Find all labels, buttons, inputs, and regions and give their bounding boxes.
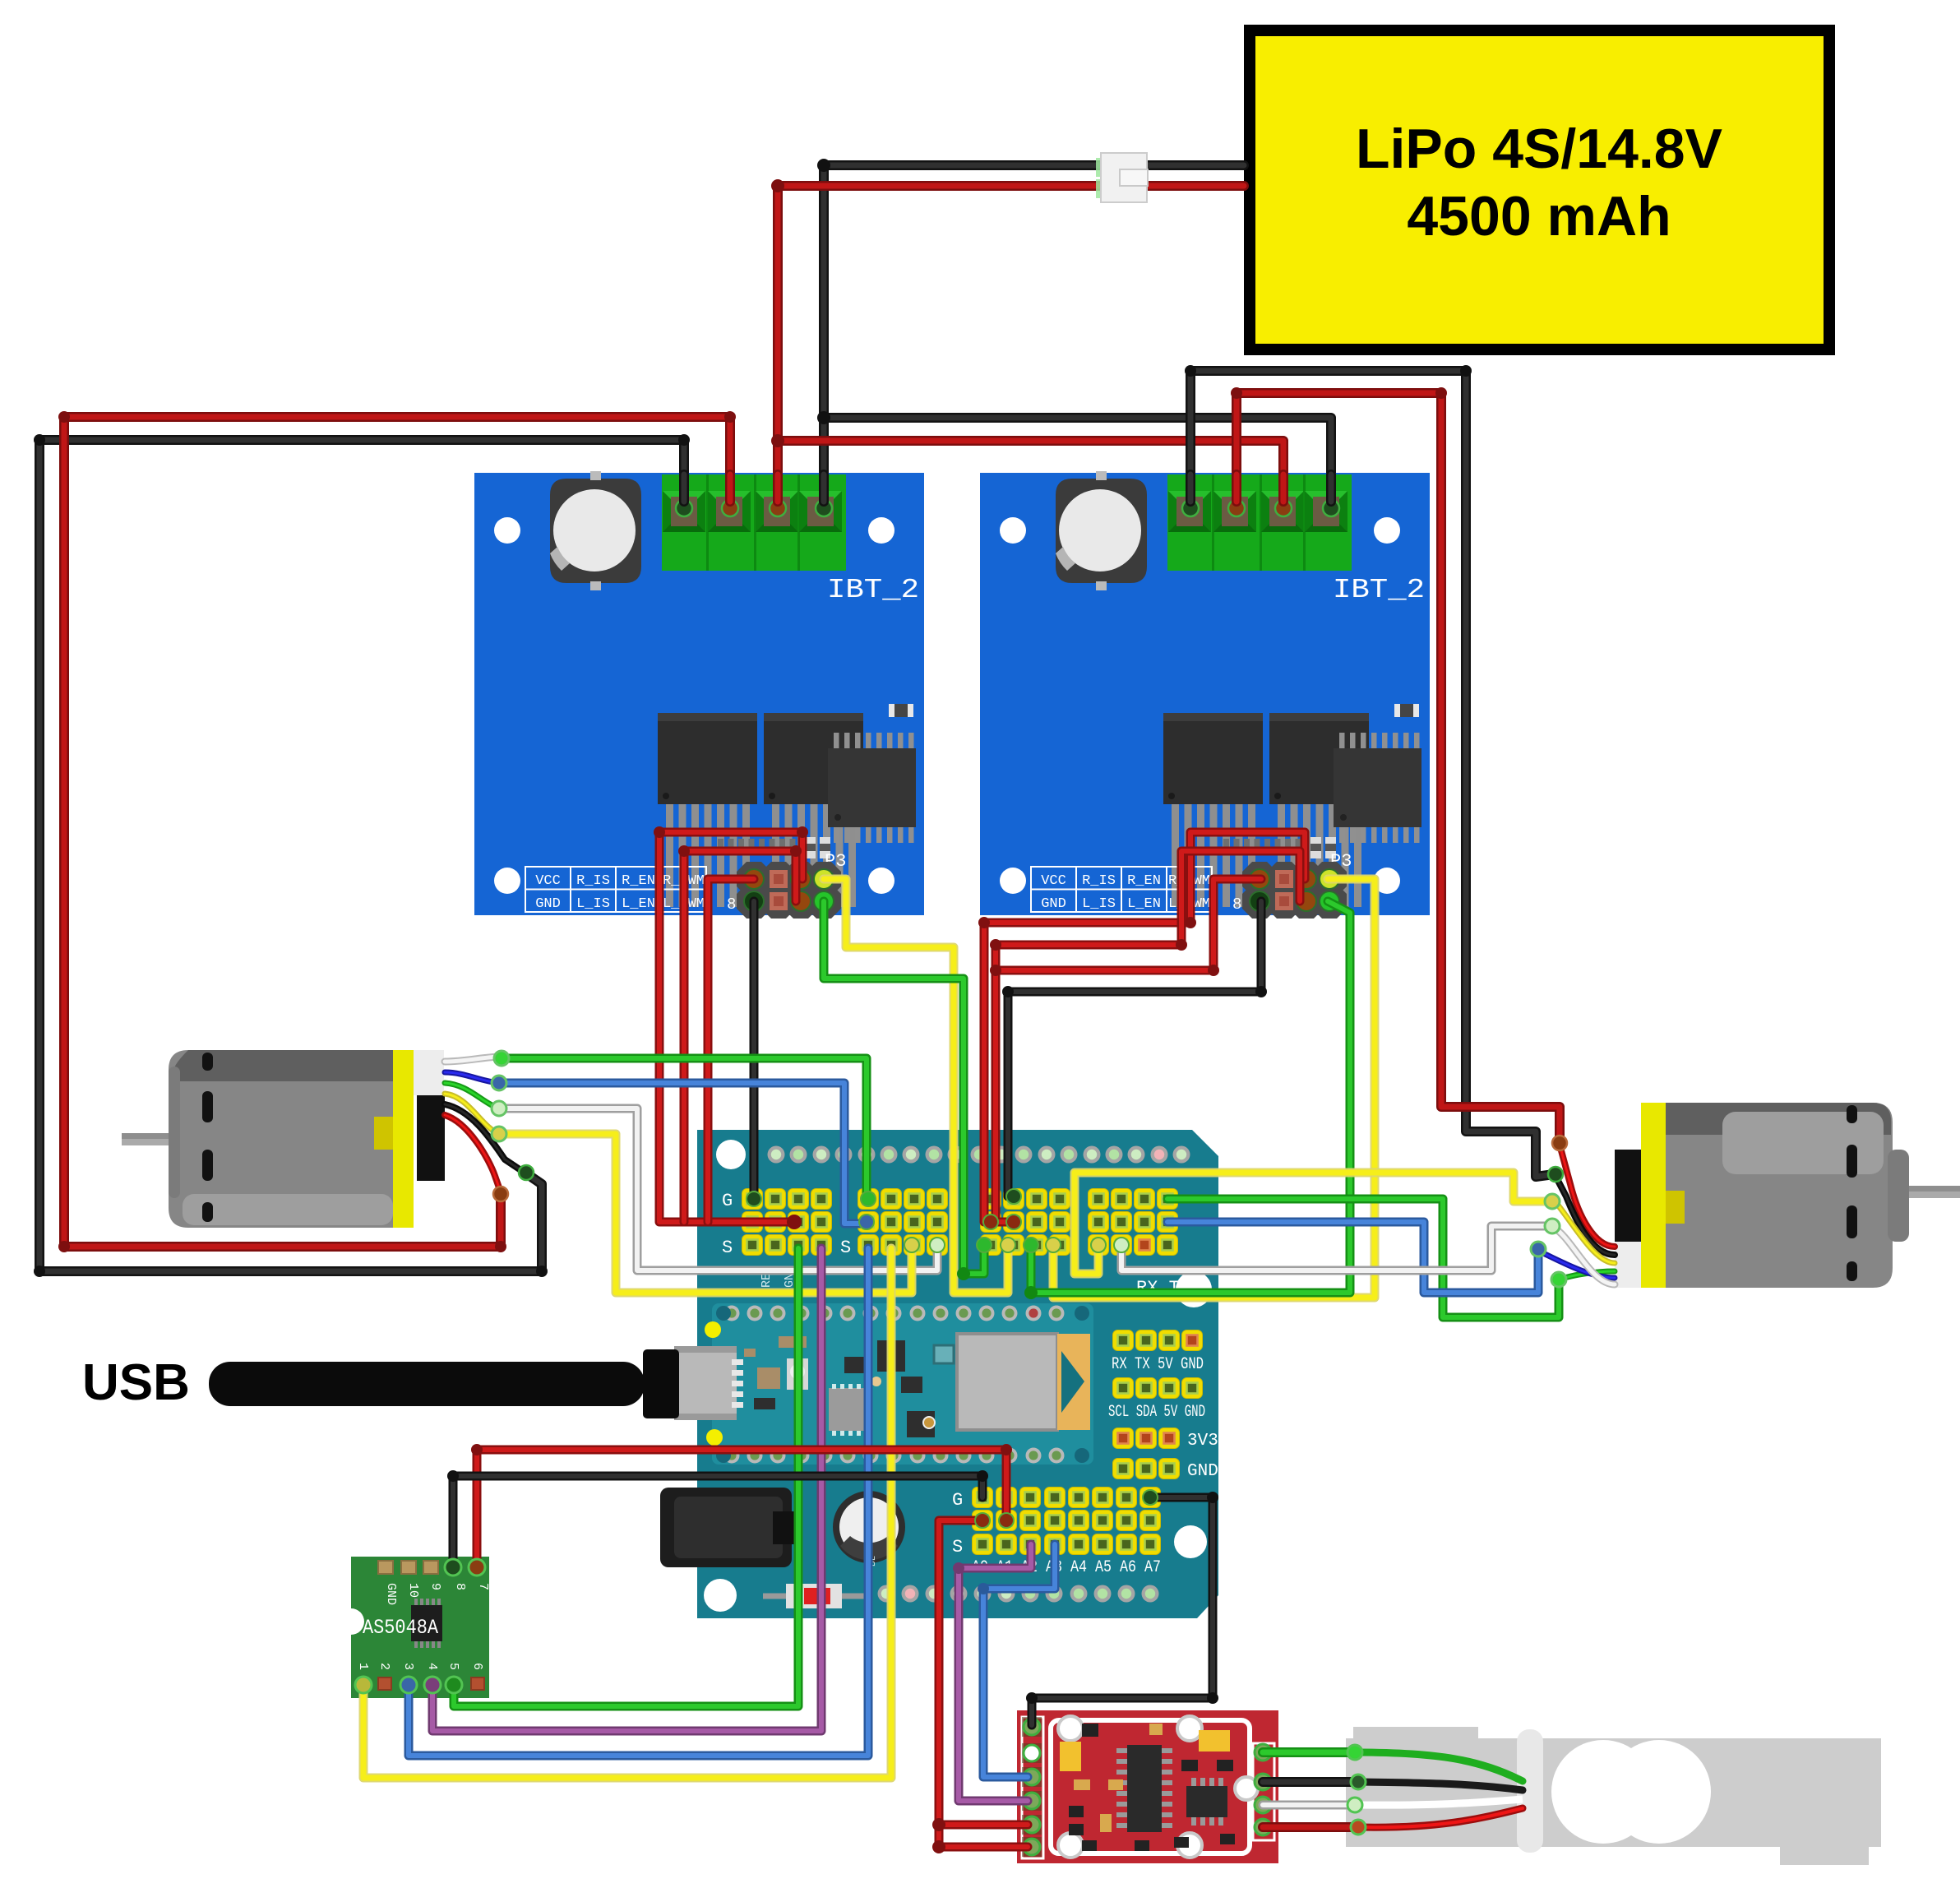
- arduino nano shield A1: [697, 1130, 1218, 1618]
- M1 pigtail black: [445, 1104, 525, 1173]
- wire motor M2 black: [1190, 371, 1554, 1177]
- wire HX711 red 5V: [939, 1520, 1028, 1825]
- wire AS5048A black pin8: [453, 1476, 982, 1565]
- svg-text:8: 8: [1232, 895, 1241, 914]
- svg-text:S: S: [722, 1238, 733, 1258]
- M1 pigtail white: [445, 1057, 499, 1062]
- nano leds: [705, 1321, 721, 1338]
- wire U1 P3 red comb A: [659, 832, 802, 1222]
- wire HX711 blue: [983, 1544, 1055, 1777]
- M1 wire end caps: [494, 1051, 509, 1066]
- AS5048A top pads: [378, 1561, 393, 1574]
- motor driver U2 IBT_2: [980, 471, 1430, 919]
- shield bottom pass-through holes: [878, 1585, 895, 1603]
- wire U1 P3 green: [824, 901, 984, 1274]
- HX711 passives: [1060, 1742, 1081, 1771]
- load cell wire white: [1263, 1801, 1355, 1810]
- svg-text:4500 mAh: 4500 mAh: [1407, 185, 1671, 248]
- svg-text:6: 6: [470, 1663, 484, 1670]
- svg-text:8: 8: [727, 895, 736, 914]
- M2 wire end caps: [1545, 1194, 1560, 1209]
- dc jack J2: [660, 1488, 792, 1567]
- svg-text:G: G: [722, 1191, 733, 1211]
- fuse F1: [763, 1594, 865, 1599]
- M2 pigtail red: [1560, 1145, 1615, 1247]
- wire AS5048A red pin7: [477, 1450, 1006, 1565]
- HX711 8-pin chip: [1186, 1786, 1227, 1817]
- wire AS5048A blue pin3: [409, 1248, 868, 1756]
- wire U2 P3 green: [1031, 901, 1350, 1293]
- GND header: [1113, 1459, 1134, 1479]
- wire M1 encoder green: [502, 1058, 867, 1199]
- M2 pigtail black: [1556, 1176, 1615, 1255]
- svg-text:G: G: [952, 1490, 963, 1511]
- wire U2 P3 black: [1008, 901, 1261, 1196]
- svg-text:2: 2: [377, 1663, 391, 1670]
- load cell wire red: [1263, 1822, 1358, 1832]
- svg-text:1: 1: [356, 1663, 370, 1670]
- junction battery gnd: [817, 411, 830, 424]
- svg-text:GND: GND: [1187, 1462, 1218, 1481]
- svg-text:RE: RE: [760, 1273, 774, 1288]
- wire M2 encoder green: [1167, 1199, 1559, 1317]
- svg-text:USB: USB: [82, 1354, 190, 1411]
- analog header block: [973, 1488, 993, 1508]
- nano usb connector: [674, 1346, 737, 1420]
- terminal wire ends U1: [676, 500, 692, 516]
- shield top pass-through holes: [768, 1146, 785, 1164]
- svg-text:S: S: [840, 1238, 851, 1258]
- RX TX 5V GND header: [1113, 1330, 1134, 1351]
- load cell wire black: [1263, 1777, 1358, 1787]
- wire end caps on shield pins: [747, 1192, 761, 1206]
- svg-text:4: 4: [425, 1663, 439, 1670]
- svg-text:RX TX 5V GND: RX TX 5V GND: [1112, 1355, 1204, 1374]
- SCL SDA 5V GND header: [1113, 1378, 1134, 1399]
- svg-text:LiPo 4S/14.8V: LiPo 4S/14.8V: [1356, 118, 1722, 180]
- svg-text:9: 9: [428, 1583, 442, 1590]
- svg-text:SCL SDA 5V GND: SCL SDA 5V GND: [1108, 1403, 1205, 1422]
- wire HX711 black: [1032, 1497, 1213, 1725]
- svg-text:AS5048A: AS5048A: [363, 1616, 438, 1640]
- wire U2 P3 red comb D: [984, 832, 1305, 1222]
- motor M1: [122, 1133, 179, 1145]
- load cell LC1: [1353, 1727, 1478, 1740]
- battery connector J10: [1096, 158, 1107, 177]
- wire stubs into U1 terminals: [679, 474, 689, 502]
- wire M2 encoder white: [1121, 1226, 1552, 1270]
- load cell wire green: [1263, 1747, 1355, 1757]
- wire HX711 red second: [939, 1825, 1028, 1847]
- svg-text:3V3: 3V3: [1187, 1432, 1218, 1451]
- svg-text:3: 3: [401, 1663, 415, 1670]
- AS5048A chip: [411, 1605, 442, 1641]
- M2 pigtail yellow: [1556, 1203, 1615, 1263]
- HX711 right pins: [1255, 1744, 1271, 1761]
- battery BT1 LiPo: [1250, 30, 1829, 349]
- nina module: [957, 1334, 1057, 1430]
- svg-text:7: 7: [476, 1583, 490, 1590]
- M2 pigtail white: [1554, 1228, 1615, 1284]
- wire U2 P3 red comb E: [996, 851, 1300, 1222]
- wire battery negative black: [824, 165, 1244, 505]
- wire U1 P3 yellow: [824, 879, 1008, 1293]
- wire M1 encoder white: [499, 1108, 937, 1270]
- wire AS5048A purple pin4: [432, 1248, 821, 1731]
- M2 pigtail blue: [1540, 1252, 1615, 1278]
- wire vcc branch to U2 red: [778, 441, 1283, 505]
- svg-text:10: 10: [406, 1583, 420, 1598]
- capacitor C10: [833, 1491, 905, 1563]
- M2 pigtail green: [1559, 1271, 1615, 1279]
- AS pin wire end caps: [355, 1677, 372, 1693]
- wire U1 P3 black D8: [750, 901, 759, 1196]
- wire U1 P3 red comb B: [684, 851, 796, 1222]
- wire stubs into U2 terminals: [1186, 474, 1195, 502]
- arduino nano U3: [712, 1303, 1093, 1465]
- HX711 main chip: [1127, 1745, 1162, 1832]
- M1 pigtail yellow: [445, 1094, 499, 1134]
- wire motor M1 red: [64, 417, 730, 1247]
- USB cable: [209, 1362, 645, 1406]
- wire M2 encoder blue: [1167, 1222, 1538, 1293]
- wire HX711 purple: [959, 1544, 1031, 1801]
- wire battery positive red: [778, 186, 1244, 505]
- motor driver U1 IBT_2: [474, 471, 924, 919]
- wire U2 P3 red comb F: [996, 879, 1261, 970]
- svg-text:GND: GND: [384, 1583, 398, 1605]
- nano bottom pins: [724, 1448, 740, 1464]
- wire motor M2 red: [1237, 393, 1560, 1141]
- nano top pins: [724, 1306, 740, 1321]
- load cell amplifier U5 HX711: [1017, 1710, 1278, 1863]
- load cell wire caps: [1347, 1745, 1362, 1760]
- wire AS5048A yellow pin1: [363, 1248, 891, 1778]
- wire U2 P3 yellow: [1053, 879, 1375, 1298]
- M1 pigtail green: [445, 1083, 499, 1108]
- wire AS5048A green pin5: [454, 1248, 798, 1706]
- HX711 left pins: [1022, 1717, 1042, 1737]
- svg-text:5: 5: [446, 1663, 460, 1670]
- wire gnd branch to U2 black: [824, 418, 1331, 505]
- 3V3 header: [1113, 1428, 1134, 1449]
- M1 pigtail blue: [445, 1072, 499, 1083]
- terminal wire ends U2: [1182, 500, 1199, 516]
- wire M2 encoder yellow: [1075, 1173, 1552, 1274]
- motor M2: [1909, 1186, 1960, 1198]
- shield header blocks G V S: [742, 1189, 763, 1210]
- shield mounting holes: [716, 1140, 746, 1169]
- wire U1 P3 red comb C: [708, 879, 754, 1222]
- M1 pigtail red: [445, 1115, 501, 1192]
- encoder board U4 AS5048A: [351, 1557, 489, 1698]
- wire M1 encoder yellow: [499, 1134, 912, 1293]
- svg-text:8: 8: [453, 1583, 467, 1590]
- nano chips: [877, 1340, 905, 1372]
- wire motor M1 black: [39, 440, 684, 1271]
- wire M1 encoder blue: [499, 1083, 865, 1224]
- svg-text:S: S: [952, 1537, 963, 1557]
